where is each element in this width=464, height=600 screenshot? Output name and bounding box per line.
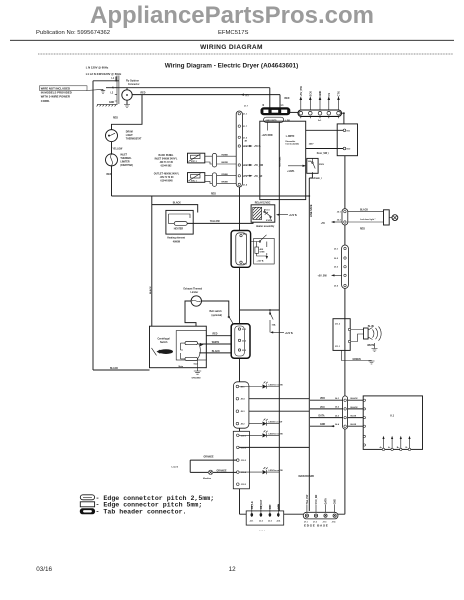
arrow +5V_BW [244, 164, 251, 166]
svg-text:240V: 240V [309, 143, 314, 146]
svg-text:+5V: +5V [321, 223, 326, 225]
edge connector J8 [233, 382, 249, 428]
arrow +5V B [244, 145, 251, 147]
lamp [392, 215, 398, 221]
wire N bus [106, 88, 270, 109]
svg-text:THERMAL: THERMAL [120, 157, 132, 160]
svg-text:+5V_SW: +5V_SW [318, 276, 328, 278]
svg-text:BLACK: BLACK [360, 208, 368, 211]
heater box [166, 210, 193, 234]
svg-text:CORD.: CORD. [41, 99, 50, 103]
wires J4 to U1 [348, 400, 364, 426]
heater resistor [174, 222, 187, 226]
edge connector J4 [343, 396, 348, 429]
svg-text:CTX: CTX [337, 91, 341, 96]
wire J8.3 [249, 410, 309, 412]
svg-text:RED: RED [285, 98, 290, 100]
arrow +5V [335, 221, 343, 223]
svg-text:+12V B.: +12V B. [285, 333, 294, 335]
svg-text:10A: 10A [272, 324, 276, 327]
stub from pill [267, 122, 269, 130]
svg-text:J10.5: J10.5 [241, 484, 247, 486]
svg-text:RED: RED [211, 194, 216, 196]
svg-text:Limiter: Limiter [191, 291, 199, 294]
main winding pill [185, 357, 198, 360]
svg-text:03/16: 03/16 [36, 566, 52, 573]
svg-text:BLUE: BLUE [351, 416, 357, 418]
svg-text:RED: RED [113, 117, 118, 119]
header rule bottom [38, 53, 453, 55]
edge base connector [303, 512, 338, 519]
edge connector V2 [212, 173, 216, 187]
svg-text:LIMITER: LIMITER [120, 162, 130, 164]
svg-text:SCK: SCK [308, 91, 312, 97]
svg-text:WHITE: WHITE [212, 342, 220, 344]
edge connector J10 [233, 431, 249, 489]
tab header J3 [231, 324, 250, 358]
svg-text:+12V B.: +12V B. [289, 215, 298, 217]
svg-text:YELLOW: YELLOW [210, 221, 221, 223]
wire limiter right to belt switch [202, 301, 229, 317]
svg-text:VCC: VCC [320, 407, 325, 409]
wire red L1 bus [132, 95, 280, 109]
wires NTC2 to V1 [205, 156, 213, 164]
belt switch [229, 317, 233, 327]
arrow J4.4 [331, 425, 335, 427]
svg-text:Lead 3: Lead 3 [172, 466, 179, 468]
ground bus hatch [97, 105, 118, 107]
thermistor NTC1 [188, 173, 205, 183]
svg-text:Interlock(120): Interlock(120) [286, 143, 300, 146]
drum light thermostat [106, 130, 118, 142]
motor M [157, 350, 163, 354]
wire J8.4 [249, 398, 309, 400]
svg-text:AppliancePartsPros.com: AppliancePartsPros.com [90, 2, 374, 29]
stepper phase pins [384, 439, 410, 450]
svg-text:GND: GND [109, 102, 114, 104]
central rail (GND) [278, 122, 280, 511]
wire to bus [112, 166, 310, 196]
svg-text:LED/Green 1W: LED/Green 1W [269, 469, 283, 472]
arrow +12V B lower [273, 331, 285, 333]
svg-text:L2main_i: L2main_i [312, 178, 322, 180]
heater element loop [169, 214, 191, 223]
connector strip power cord [115, 76, 119, 105]
resistor 40K OHM [255, 247, 259, 253]
svg-text:WHITE: WHITE [367, 345, 375, 347]
svg-text:Belt switch: Belt switch [210, 310, 223, 313]
moisture sensor loop [190, 460, 236, 472]
svg-text:+12V DRD: +12V DRD [262, 135, 273, 137]
svg-text:B-: B- [406, 447, 408, 449]
svg-text:LED/Drum 1W: LED/Drum 1W [269, 421, 283, 424]
svg-text:Exhaust Thermal: Exhaust Thermal [184, 287, 203, 290]
svg-text:+5V_NF: +5V_NF [254, 176, 263, 178]
svg-text:VDD: VDD [320, 398, 325, 400]
ground chassis [101, 89, 105, 93]
wire X2 to K box [342, 113, 344, 124]
arrow +12V B relay [279, 214, 289, 216]
svg-text:RELAY/12VDC: RELAY/12VDC [255, 202, 271, 205]
right rail [344, 156, 346, 515]
svg-text:BACK PANEL: BACK PANEL [159, 154, 174, 157]
svg-text:L1 L2 N 240V/120V @ 60Hz: L1 L2 N 240V/120V @ 60Hz [86, 72, 122, 76]
main board bottom edge [240, 513, 345, 515]
svg-text:- Tab header connector.: - Tab header connector. [96, 508, 187, 515]
edge connector J2 [246, 511, 284, 525]
svg-text:YEL_PW: YEL_PW [307, 494, 309, 504]
svg-text:Door_SW_i: Door_SW_i [317, 153, 330, 155]
svg-text:RED: RED [107, 174, 112, 176]
svg-text:OUTLET 4900W 240V*L: OUTLET 4900W 240V*L [154, 173, 180, 176]
wire note-to-ground [87, 89, 104, 90]
svg-text:MAIN BOARD: MAIN BOARD [299, 475, 315, 478]
svg-text:....: .... [259, 528, 266, 532]
door switch box [254, 238, 275, 264]
buzzer connector box [333, 319, 350, 351]
wires V2 to J1 [217, 176, 237, 184]
wires to buzzer [351, 330, 364, 342]
svg-text:HEATER: HEATER [174, 228, 184, 231]
svg-text:(DRAYPAD): (DRAYPAD) [120, 164, 133, 167]
fuse F2 [270, 310, 273, 332]
svg-text:Switch: Switch [160, 341, 168, 344]
junction dot [308, 195, 310, 197]
svg-text:Led door light *: Led door light * [360, 218, 375, 221]
svg-text:+12V B.: +12V B. [257, 261, 265, 263]
svg-text:Wiring Diagram - Electric Drye: Wiring Diagram - Electric Dryer (A046436… [165, 63, 299, 70]
svg-text:VCC_NR: VCC_NR [316, 494, 318, 504]
wire TC1 to ground [126, 100, 128, 104]
wires to door lamp [348, 212, 384, 222]
svg-text:61044 8048: 61044 8048 [160, 180, 173, 183]
buzzer ground [372, 343, 378, 352]
wire bottom-left to motor [93, 369, 150, 371]
wire J10.2 [239, 446, 309, 448]
svg-text:Dimmable: Dimmable [286, 141, 297, 143]
diode D4 [239, 470, 279, 474]
green ground [342, 350, 375, 364]
svg-text:Publication No: 5995674362: Publication No: 5995674362 [36, 30, 110, 36]
wire console to K pin2 [306, 148, 344, 150]
ground below TC1 [124, 105, 130, 108]
relay box K [337, 124, 357, 156]
svg-text:A-: A- [388, 446, 390, 449]
svg-text:LED/Green 1W: LED/Green 1W [269, 432, 283, 435]
svg-text:THERMOSTAT: THERMOSTAT [126, 138, 142, 141]
wire motor WHITE [199, 343, 235, 345]
svg-text:BK/BK: BK/BK [222, 182, 229, 184]
svg-text:Main: Main [179, 366, 184, 368]
svg-text:BK/RD: BK/RD [222, 162, 229, 164]
line save rail [309, 173, 312, 511]
exhaust thermal limiter [191, 296, 201, 306]
svg-text:+12VD.: +12VD. [287, 171, 295, 173]
thermal cutoff TC1 [122, 90, 132, 100]
svg-text:L N 120V @ 60Hz: L N 120V @ 60Hz [86, 66, 109, 70]
wire TC1 top [126, 88, 128, 90]
svg-text:EDGE BASE: EDGE BASE [304, 524, 329, 528]
svg-text:J10.3: J10.3 [241, 460, 247, 462]
harness arrows up [301, 100, 339, 111]
moisture lamp [208, 470, 212, 474]
svg-text:YELLOW: YELLOW [113, 148, 124, 150]
thermistor NTC2 [188, 153, 205, 163]
svg-text:Machine: Machine [203, 478, 212, 480]
wires NTC1 to V2 [205, 176, 213, 184]
J2 stubs [252, 505, 278, 518]
svg-text:INLET 5400W 240V*L: INLET 5400W 240V*L [155, 158, 178, 161]
svg-text:Heating element: Heating element [167, 237, 185, 240]
svg-text:BLUE: BLUE [351, 424, 357, 426]
diode D3 [239, 433, 279, 437]
svg-text:U.1: U.1 [390, 414, 395, 418]
svg-text:RED: RED [141, 92, 146, 94]
svg-text:-ON 71 72 30: -ON 71 72 30 [160, 177, 175, 179]
svg-text:Centrifugal: Centrifugal [158, 338, 170, 341]
wire top L1 [93, 77, 119, 371]
svg-text:GROUND: GROUND [192, 377, 202, 379]
svg-text:DRUM: DRUM [126, 132, 133, 134]
lamp holder [384, 210, 390, 225]
svg-text:ORANGE: ORANGE [204, 456, 215, 459]
note box [40, 86, 88, 91]
svg-text:EFMC517S: EFMC517S [218, 30, 249, 36]
legend edge connector 2.5mm [80, 495, 94, 500]
fuse F1 10A [307, 158, 318, 173]
wire X1 to X2 [290, 111, 298, 113]
edge connector J5 [342, 209, 348, 225]
wire [111, 142, 113, 154]
console board box [260, 121, 306, 199]
edge connector J6 [342, 245, 349, 288]
svg-text:+5V_PW: +5V_PW [299, 86, 303, 97]
svg-text:Heater assembly: Heater assembly [256, 225, 275, 228]
wire motor RED [206, 335, 231, 337]
tap (P) arrow [241, 94, 245, 96]
tab header connector X1 [261, 108, 290, 115]
stepper motor U1 [363, 396, 422, 450]
svg-text:NTC 2: NTC 2 [191, 161, 198, 163]
J2 signal labels vertical [252, 499, 280, 509]
svg-text:ORANGE: ORANGE [217, 469, 228, 472]
svg-text:BLACK: BLACK [351, 397, 359, 400]
buzzer [364, 328, 369, 339]
svg-text:BLUE: BLUE [368, 326, 375, 328]
arrow +5V_NF [244, 175, 251, 177]
door block connector [231, 231, 251, 268]
svg-text:12: 12 [229, 566, 237, 573]
svg-text:RD/BK: RD/BK [222, 154, 229, 156]
svg-text:BLACK: BLACK [351, 406, 359, 409]
svg-text:LED/Green 1W: LED/Green 1W [269, 384, 283, 387]
arrow +5V_SW [335, 274, 342, 276]
svg-text:(P): (P) [246, 95, 249, 97]
svg-text:LIGHT: LIGHT [126, 135, 133, 137]
svg-text:OHM: OHM [260, 251, 265, 253]
legend edge connector 5mm [80, 502, 94, 507]
svg-text:J11.1: J11.1 [335, 346, 341, 348]
belt line [240, 309, 280, 311]
motor rail [151, 196, 153, 326]
motor ground [194, 359, 201, 374]
svg-text:4900W: 4900W [173, 241, 181, 244]
arrow +12V D [288, 165, 304, 167]
svg-text:RED: RED [360, 228, 365, 230]
pins X2 [299, 111, 340, 115]
svg-text:250V: 250V [319, 164, 325, 166]
wire motor BLACK [199, 352, 235, 354]
diode D2 [249, 422, 279, 426]
wire heater feed [152, 205, 198, 213]
inlet thermal limiter [106, 154, 118, 166]
stepper harness wires [310, 400, 343, 426]
edge connector GND DWTD [264, 117, 284, 122]
motor box [150, 326, 207, 368]
start winding pill [185, 342, 198, 345]
svg-text:Fly Outdoor: Fly Outdoor [126, 79, 139, 82]
svg-text:WIRING DIAGRAM: WIRING DIAGRAM [200, 44, 263, 51]
wire limiter left [185, 301, 196, 326]
svg-text:BLACK: BLACK [110, 367, 118, 370]
svg-text:LINE SAVE: LINE SAVE [310, 204, 313, 217]
pin labels J1 [243, 114, 248, 187]
svg-text:J2.2: J2.2 [259, 521, 263, 523]
svg-text:INLET: INLET [120, 155, 127, 157]
svg-text:Connector: Connector [128, 83, 140, 86]
svg-text:BLACK: BLACK [173, 201, 181, 204]
tab header connector X2 [298, 110, 342, 116]
svg-text:BLACK: BLACK [212, 350, 220, 353]
edge base labels vertical [307, 494, 337, 504]
svg-text:CS: CS [327, 93, 331, 97]
svg-text:DATA: DATA [325, 498, 328, 504]
svg-text:L-DRTD: L-DRTD [286, 136, 295, 138]
wires V1 to J1 [217, 156, 237, 164]
wire drop to drum light [112, 95, 143, 130]
diode D1 [239, 384, 279, 388]
svg-text:GND: GND [318, 91, 322, 97]
edge base stubs [307, 505, 335, 513]
svg-text:J11.2: J11.2 [335, 323, 341, 325]
svg-text:61044 862: 61044 862 [161, 165, 173, 168]
svg-text:+5V B.: +5V B. [254, 146, 261, 148]
svg-text:K1/DA: K1/DA [266, 219, 273, 222]
edge connector V1 [212, 153, 216, 167]
edge connector J1 (console left) [236, 111, 242, 187]
svg-text:(optional): (optional) [212, 314, 223, 317]
svg-text:J2.3: J2.3 [268, 521, 272, 523]
svg-text:DATA: DATA [319, 415, 325, 418]
rail door branch [239, 187, 241, 514]
motor terminal box [176, 331, 206, 360]
legend tab header [80, 509, 94, 514]
header rule top [10, 39, 454, 41]
svg-text:-ON 71 72 30: -ON 71 72 30 [159, 162, 174, 164]
svg-text:+5V_BW: +5V_BW [254, 165, 264, 167]
svg-text:NTC 1: NTC 1 [191, 180, 198, 182]
wire console to K pin1 [306, 129, 344, 131]
svg-text:GREEN: GREEN [353, 359, 362, 361]
harness signal labels [299, 86, 341, 97]
svg-text:GND: GND [335, 499, 337, 504]
wire yellow [187, 222, 253, 223]
svg-text:J10.4: J10.4 [241, 471, 247, 474]
svg-text:GND: GND [320, 424, 325, 426]
svg-text:RD/BK: RD/BK [222, 174, 229, 176]
svg-text:RED: RED [213, 334, 218, 336]
